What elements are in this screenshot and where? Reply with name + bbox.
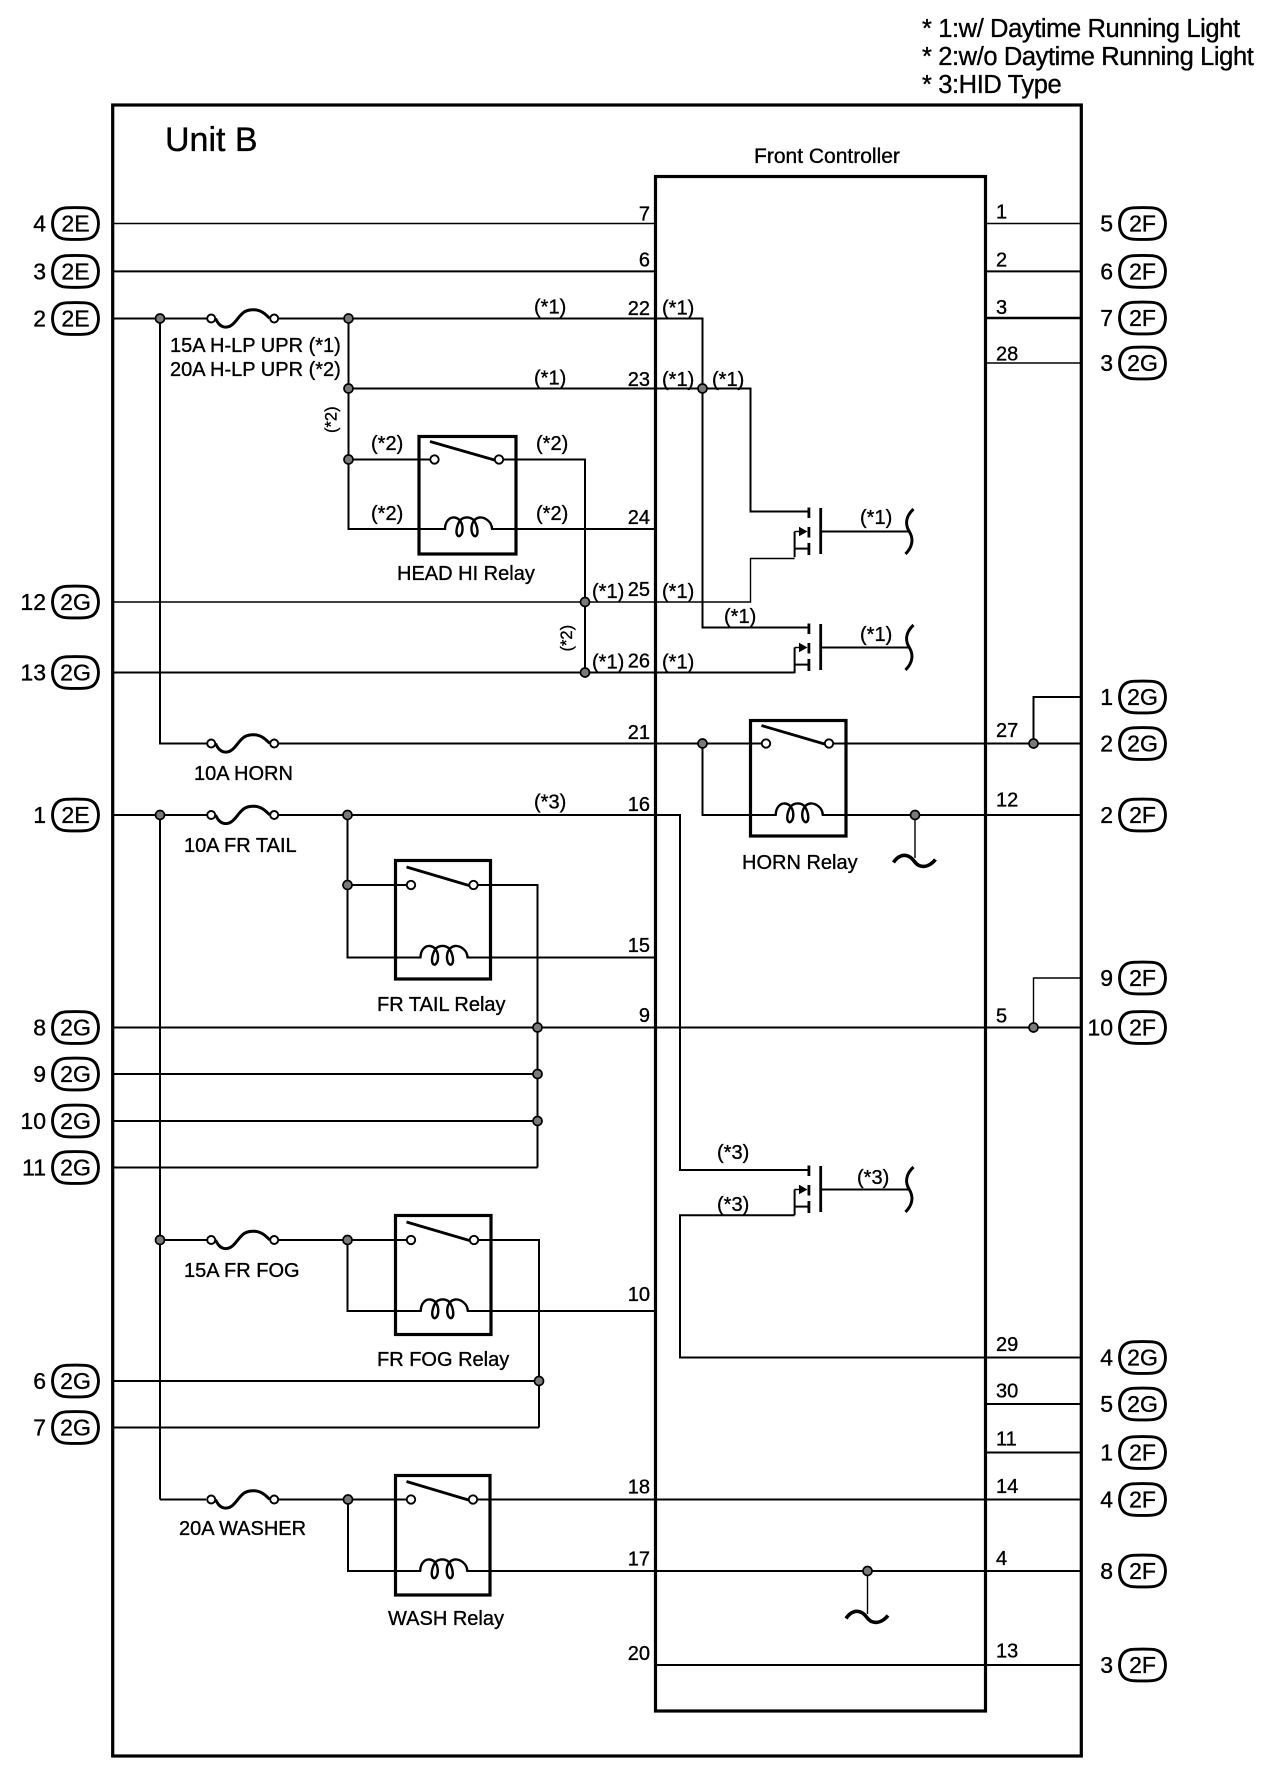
- wire pin 30 to 5(2G): [986, 1403, 1082, 1405]
- svg-text:5: 5: [996, 1006, 1007, 1028]
- wire FR FOG switch output to 6,7(2G): [478, 1240, 539, 1428]
- fuse 10A FR TAIL: [184, 806, 297, 857]
- svg-text:(*2): (*2): [536, 503, 568, 525]
- wire 6(2G): [113, 1380, 539, 1382]
- wire HEAD HI switch input: [349, 459, 433, 461]
- svg-text:3: 3: [1100, 350, 1113, 376]
- svg-text:21: 21: [628, 722, 650, 744]
- ground HORN relay ground: [894, 819, 936, 866]
- svg-text:5: 5: [1100, 211, 1113, 237]
- svg-text:2F: 2F: [1129, 1015, 1156, 1041]
- Front Controller box U1: [656, 177, 986, 1712]
- junction line25 node: [581, 598, 590, 607]
- svg-text:2E: 2E: [61, 306, 89, 332]
- relay FR TAIL: [377, 861, 506, 1017]
- connector 10(2G): [20, 1105, 98, 1137]
- wire HEAD HI switch output to lines 25/26: [502, 460, 585, 673]
- junction FR TAIL sw node: [343, 881, 352, 890]
- svg-text:6: 6: [1100, 258, 1113, 284]
- wire FR TAIL coil out to pin 15: [491, 957, 656, 959]
- connector 6(2F): [1100, 255, 1165, 287]
- wire FR FOG coil out to pin 10: [491, 1310, 655, 1312]
- svg-text:2F: 2F: [1129, 258, 1156, 284]
- junction WASH sw node: [344, 1495, 353, 1504]
- wire 2(2E) to fuse H-LP UPR: [113, 318, 207, 320]
- svg-text:FR FOG Relay: FR FOG Relay: [377, 1349, 509, 1371]
- svg-text:(*2): (*2): [323, 406, 341, 433]
- svg-text:2G: 2G: [1127, 684, 1158, 710]
- svg-text:2G: 2G: [1127, 1345, 1158, 1371]
- svg-text:7: 7: [33, 1415, 46, 1441]
- connector 7(2F): [1100, 302, 1165, 334]
- wire pin 3 to 7(2F): [986, 317, 1082, 319]
- connector 10(2F): [1087, 1012, 1165, 1044]
- connector 8(2G): [33, 1012, 98, 1044]
- svg-text:14: 14: [996, 1476, 1018, 1498]
- svg-text:6: 6: [639, 250, 650, 272]
- svg-text:* 2:w/o Daytime Running Light: * 2:w/o Daytime Running Light: [922, 43, 1254, 71]
- fuse 20A WASHER: [179, 1491, 306, 1540]
- relay HEAD HI: [397, 437, 535, 586]
- svg-text:1: 1: [1100, 684, 1113, 710]
- wire pin 11 to 1(2F): [986, 1452, 1082, 1454]
- svg-text:* 3:HID Type: * 3:HID Type: [922, 71, 1062, 99]
- wire WASH coil out through pins 17/4 to 8(2F): [490, 1570, 1081, 1572]
- svg-text:7: 7: [1100, 305, 1113, 331]
- wire fuse FR TAIL to pin 16 and down to Q3 gate: [278, 815, 809, 1170]
- svg-text:10: 10: [1087, 1015, 1113, 1041]
- svg-text:2G: 2G: [1127, 350, 1158, 376]
- svg-text:(*1): (*1): [724, 606, 756, 628]
- svg-text:2G: 2G: [60, 1108, 91, 1134]
- junction 9(2G) node: [533, 1070, 542, 1079]
- connector 2(2F): [1100, 799, 1165, 831]
- junction 2(2E) bus tap: [156, 314, 165, 323]
- svg-text:9: 9: [33, 1061, 46, 1087]
- svg-text:(*2): (*2): [371, 433, 403, 455]
- svg-text:10A FR TAIL: 10A FR TAIL: [184, 835, 297, 857]
- svg-text:HORN Relay: HORN Relay: [742, 852, 858, 874]
- svg-text:11: 11: [22, 1155, 46, 1181]
- connector 9(2G): [33, 1058, 98, 1090]
- wire pin 1 to 5(2F): [986, 223, 1082, 225]
- connector 4(2F): [1100, 1484, 1165, 1516]
- svg-text:20: 20: [628, 1643, 650, 1665]
- svg-text:2G: 2G: [60, 1155, 91, 1181]
- svg-text:23: 23: [628, 369, 650, 391]
- connector 5(2G): [1100, 1388, 1165, 1420]
- svg-text:1: 1: [1100, 1440, 1113, 1466]
- junction 1(2E) bus tap: [156, 811, 165, 820]
- svg-text:30: 30: [996, 1381, 1018, 1403]
- svg-text:2G: 2G: [60, 1368, 91, 1394]
- svg-text:2F: 2F: [1129, 305, 1156, 331]
- svg-text:7: 7: [639, 204, 650, 226]
- wire FR TAIL relay branch bus: [348, 815, 396, 958]
- svg-text:28: 28: [996, 344, 1018, 366]
- svg-text:2F: 2F: [1129, 211, 1156, 237]
- svg-text:9: 9: [639, 1005, 650, 1027]
- wire fuse H-LP UPR to pin 22 and down to Q2 gate: [278, 319, 809, 628]
- wire Q3 source to pin 29 and 4(2G): [680, 1215, 1081, 1357]
- svg-text:24: 24: [628, 507, 650, 529]
- junction 2G1-2 node: [1029, 739, 1038, 748]
- relay HORN: [742, 721, 858, 875]
- svg-text:4: 4: [1100, 1345, 1113, 1371]
- svg-text:4: 4: [33, 211, 46, 237]
- wire HEAD HI coil output to pin 24: [516, 528, 655, 530]
- svg-text:(*2): (*2): [536, 433, 568, 455]
- svg-text:1: 1: [996, 202, 1007, 224]
- relay WASH: [388, 1476, 504, 1631]
- wire bus to FR FOG fuse: [160, 1239, 207, 1241]
- svg-text:(*2): (*2): [558, 625, 576, 652]
- wire 9(2G): [113, 1073, 538, 1075]
- connector 2(2E): [33, 303, 98, 335]
- junction FOG bus tap: [156, 1236, 165, 1245]
- connector 9(2F): [1100, 962, 1165, 994]
- junction FR TAIL node: [343, 811, 352, 820]
- connector 13(2G): [20, 657, 98, 689]
- junction line26 node: [581, 668, 590, 677]
- svg-text:8: 8: [33, 1015, 46, 1041]
- wire pin 2 to 6(2F): [986, 270, 1082, 272]
- wire 13(2G) to pin 26 and Q2 source: [113, 672, 795, 674]
- svg-text:10: 10: [20, 1108, 46, 1134]
- svg-text:(*1): (*1): [592, 652, 624, 674]
- wire FR FOG relay coil feed: [348, 1240, 396, 1311]
- svg-text:2F: 2F: [1129, 1652, 1156, 1678]
- wire 12(2G) to pin 25 and Q1 source: [113, 559, 795, 603]
- svg-text:20A H-LP UPR (*2): 20A H-LP UPR (*2): [170, 359, 341, 381]
- svg-text:4: 4: [996, 1548, 1007, 1570]
- fuse 15A/20A H-LP UPR: [170, 310, 341, 381]
- connector 5(2F): [1100, 208, 1165, 240]
- transistor Q3 (*3 HID): [795, 1166, 914, 1216]
- wire WASHER fuse to relay: [278, 1499, 408, 1501]
- wire (*2) branch bus down to HEAD HI relay: [349, 319, 420, 530]
- connector 7(2G): [33, 1412, 98, 1444]
- wire 1(2E) to fuse FR TAIL: [113, 814, 207, 816]
- svg-text:12: 12: [996, 790, 1018, 812]
- svg-text:2G: 2G: [60, 1061, 91, 1087]
- junction 10(2G) node: [533, 1117, 542, 1126]
- svg-text:2G: 2G: [60, 1415, 91, 1441]
- wire pin 28 to 3(2G): [986, 362, 1082, 364]
- svg-text:20A WASHER: 20A WASHER: [179, 1518, 306, 1540]
- svg-text:(*3): (*3): [717, 1142, 749, 1164]
- svg-text:2E: 2E: [61, 211, 89, 237]
- junction HEAD HI sw node: [344, 455, 353, 464]
- svg-text:12: 12: [20, 589, 46, 615]
- svg-text:5: 5: [1100, 1391, 1113, 1417]
- svg-text:2F: 2F: [1129, 1487, 1156, 1513]
- svg-text:(*1): (*1): [860, 507, 892, 529]
- wire 2(2E) bus down to HORN fuse: [160, 319, 207, 744]
- wire 11(2G): [113, 1167, 538, 1169]
- svg-text:(*1): (*1): [662, 581, 694, 603]
- svg-text:2F: 2F: [1129, 1558, 1156, 1584]
- junction 2F9-10 node: [1029, 1023, 1038, 1032]
- svg-text:17: 17: [628, 1549, 650, 1571]
- svg-text:HEAD HI Relay: HEAD HI Relay: [397, 563, 535, 585]
- svg-text:(*1): (*1): [534, 297, 566, 319]
- wire 1(2E) bus down to FOG and WASHER fuses: [159, 815, 161, 1500]
- fuse 10A HORN: [194, 735, 293, 785]
- connector 3(2G): [1100, 347, 1165, 379]
- wire WASH relay coil feed: [348, 1500, 396, 1572]
- svg-text:(*3): (*3): [717, 1194, 749, 1216]
- svg-text:2: 2: [33, 306, 46, 332]
- wire bus corner to WASHER fuse: [160, 1499, 206, 1501]
- svg-text:WASH Relay: WASH Relay: [388, 1608, 504, 1630]
- svg-text:3: 3: [33, 258, 46, 284]
- svg-text:2E: 2E: [61, 258, 89, 284]
- svg-text:2G: 2G: [60, 1015, 91, 1041]
- svg-text:2F: 2F: [1129, 1440, 1156, 1466]
- svg-text:(*1): (*1): [712, 369, 744, 391]
- wire WASH switch out through pins 18/14 to 4(2F): [478, 1499, 1082, 1501]
- svg-text:15A FR FOG: 15A FR FOG: [184, 1260, 300, 1282]
- wire 10(2G): [113, 1120, 538, 1122]
- svg-text:10A HORN: 10A HORN: [194, 763, 293, 785]
- svg-text:(*2): (*2): [371, 503, 403, 525]
- svg-text:18: 18: [628, 1477, 650, 1499]
- junction Q2 gate node: [698, 384, 707, 393]
- junction pin23 node: [344, 384, 353, 393]
- relay FR FOG: [377, 1216, 509, 1372]
- junction FOG sw node: [343, 1236, 352, 1245]
- svg-text:2: 2: [996, 250, 1007, 272]
- svg-text:1: 1: [33, 802, 46, 828]
- wire branch to 9(2F): [1034, 978, 1082, 1028]
- svg-text:8: 8: [1100, 1558, 1113, 1584]
- wire FR FOG fuse to relay: [278, 1239, 408, 1241]
- svg-text:11: 11: [996, 1429, 1017, 1451]
- svg-text:2G: 2G: [1127, 731, 1158, 757]
- transistor Q1 (*1 high beam): [795, 508, 914, 558]
- svg-text:(*1): (*1): [662, 369, 694, 391]
- junction 8(2G) node: [533, 1023, 542, 1032]
- svg-text:3: 3: [1100, 1652, 1113, 1678]
- wire 7(2G): [113, 1427, 539, 1429]
- svg-text:(*1): (*1): [860, 624, 892, 646]
- svg-text:(*1): (*1): [662, 652, 694, 674]
- transistor Q2 (*1 high beam): [795, 624, 914, 674]
- connector 4(2G): [1100, 1342, 1165, 1374]
- svg-text:2G: 2G: [1127, 1391, 1158, 1417]
- svg-text:22: 22: [628, 298, 650, 320]
- wire 3(2E) to pin 6: [113, 270, 655, 272]
- wire 8(2G) through pins 9 and 5 to 10(2F): [113, 1027, 1082, 1029]
- connector 8(2F): [1100, 1555, 1165, 1587]
- svg-text:Unit B: Unit B: [165, 121, 258, 159]
- svg-text:16: 16: [628, 794, 650, 816]
- connector 3(2E): [33, 255, 98, 287]
- junction HORN gnd node: [911, 811, 920, 820]
- wire 4(2E) to pin 7: [113, 223, 655, 225]
- connector 2(2G): [1100, 728, 1165, 760]
- connector 11(2G): [22, 1152, 98, 1184]
- wire FR TAIL switch input: [348, 884, 409, 886]
- ground WASH relay ground: [846, 1575, 888, 1622]
- svg-text:2G: 2G: [60, 589, 91, 615]
- connector 1(2E): [33, 799, 98, 831]
- svg-text:(*3): (*3): [857, 1167, 889, 1189]
- svg-text:29: 29: [996, 1334, 1018, 1356]
- fuse 15A FR FOG: [184, 1231, 300, 1282]
- svg-text:2G: 2G: [60, 660, 91, 686]
- wire HORN relay coil feed: [703, 744, 751, 816]
- svg-text:2F: 2F: [1129, 802, 1156, 828]
- svg-text:(*1): (*1): [592, 581, 624, 603]
- svg-text:(*3): (*3): [534, 792, 566, 814]
- svg-text:Front Controller: Front Controller: [754, 145, 900, 168]
- connector 1(2G): [1100, 681, 1165, 713]
- svg-text:(*1): (*1): [534, 368, 566, 390]
- wire pin 20 through pin 13 to 3(2F): [656, 1664, 1082, 1666]
- connector 12(2G): [20, 586, 98, 618]
- svg-text:2F: 2F: [1129, 965, 1156, 991]
- wire branch to 1(2G): [1034, 697, 1082, 744]
- svg-text:13: 13: [20, 660, 46, 686]
- wire FR TAIL switch output to 8-11(2G): [478, 885, 538, 1168]
- svg-text:27: 27: [996, 720, 1018, 742]
- wire HORN relay switch out, pin 27 to 2(2G): [833, 743, 1081, 745]
- svg-text:2: 2: [1100, 731, 1113, 757]
- connector 4(2E): [33, 208, 98, 240]
- Unit B enclosure box: [113, 105, 1082, 1756]
- svg-text:(*1): (*1): [662, 298, 694, 320]
- connector 6(2G): [33, 1365, 98, 1397]
- svg-text:* 1:w/ Daytime Running Light: * 1:w/ Daytime Running Light: [922, 15, 1240, 43]
- svg-text:FR TAIL Relay: FR TAIL Relay: [377, 994, 506, 1016]
- wire pin 23 branch to Q1 gate: [349, 389, 809, 512]
- junction 6(2G) node: [535, 1377, 544, 1386]
- svg-text:10: 10: [628, 1284, 650, 1306]
- svg-text:9: 9: [1100, 965, 1113, 991]
- wire HORN relay coil out, pin 12 to 2(2F): [846, 814, 1081, 816]
- svg-text:2E: 2E: [61, 802, 89, 828]
- junction WASH gnd node: [863, 1567, 872, 1576]
- svg-text:15A H-LP UPR (*1): 15A H-LP UPR (*1): [170, 335, 341, 357]
- wire HORN fuse to pin 21 and HORN relay: [278, 743, 761, 745]
- svg-text:3: 3: [996, 297, 1007, 319]
- svg-text:2: 2: [1100, 802, 1113, 828]
- connector 3(2F): [1100, 1649, 1165, 1681]
- svg-text:4: 4: [1100, 1487, 1113, 1513]
- junction fuse out node: [344, 314, 353, 323]
- svg-text:13: 13: [996, 1641, 1018, 1663]
- svg-text:26: 26: [628, 651, 650, 673]
- svg-text:15: 15: [628, 935, 650, 957]
- junction HORN coil node: [698, 739, 707, 748]
- connector 1(2F): [1100, 1437, 1165, 1469]
- svg-text:25: 25: [628, 579, 650, 601]
- svg-text:6: 6: [33, 1368, 46, 1394]
